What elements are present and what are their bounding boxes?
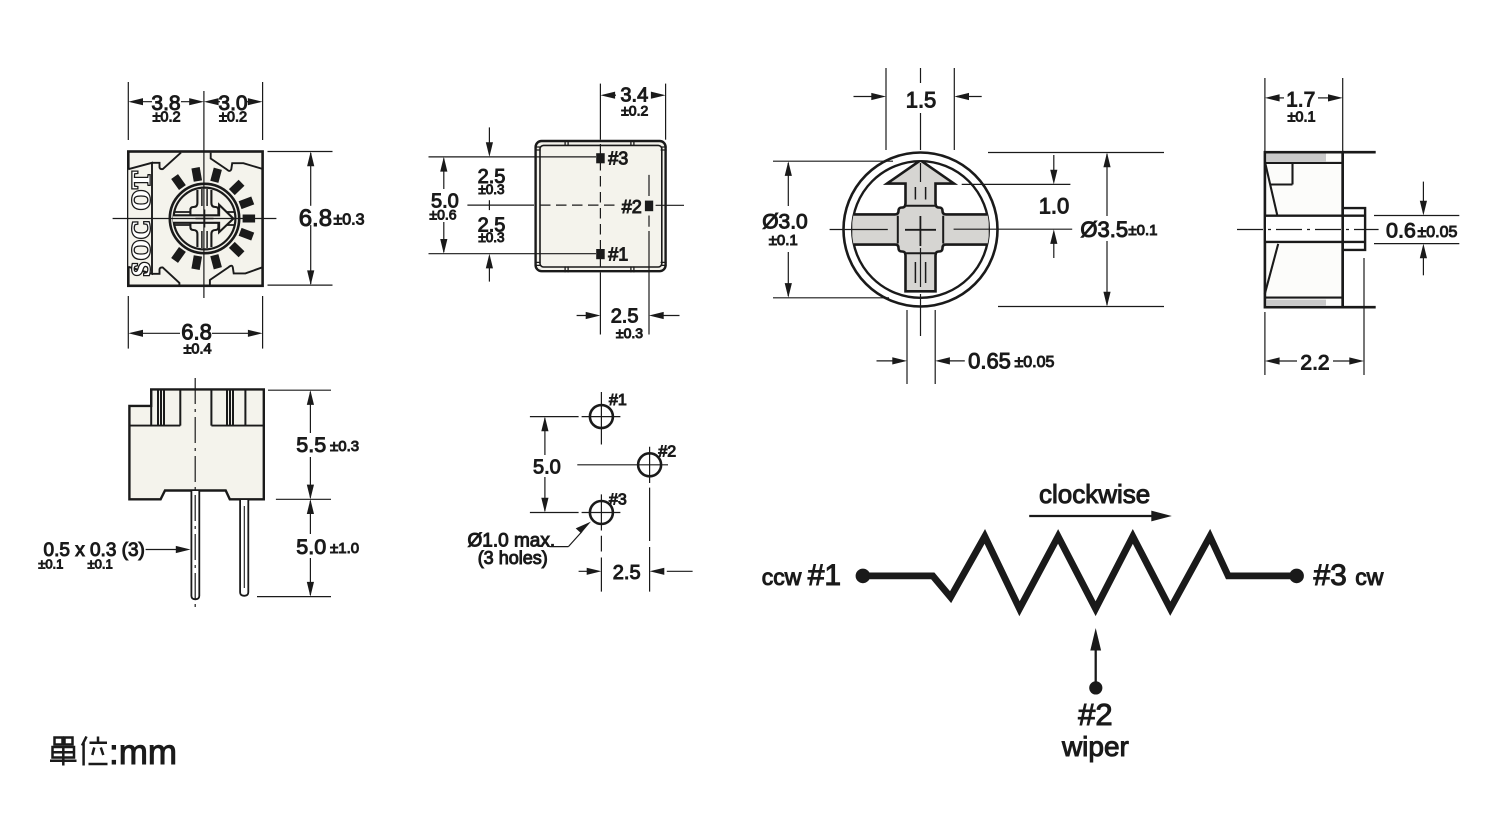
svg-text:0.65: 0.65 bbox=[968, 349, 1011, 374]
centerline vertical pins column bbox=[599, 84, 601, 335]
pin 3 pad bbox=[596, 153, 605, 163]
gray bearing strip top bbox=[1266, 154, 1326, 162]
dimension 0.6 +-0.05 bbox=[1374, 182, 1459, 276]
svg-text:5.0: 5.0 bbox=[533, 457, 561, 479]
clockwise arrow bbox=[1029, 511, 1172, 522]
svg-text:5.5: 5.5 bbox=[296, 433, 326, 457]
svg-text:ccw #1: ccw #1 bbox=[762, 559, 841, 592]
shaft band lines bbox=[1265, 216, 1365, 242]
svg-text:#3 cw: #3 cw bbox=[1314, 559, 1384, 592]
svg-text:wiper: wiper bbox=[1061, 731, 1129, 762]
svg-text:#3: #3 bbox=[608, 149, 628, 169]
dimension 1.0 bbox=[954, 155, 1073, 258]
hole column lines bbox=[601, 488, 649, 592]
svg-text:#2: #2 bbox=[622, 197, 642, 217]
svg-text:±0.1: ±0.1 bbox=[38, 557, 63, 572]
svg-text:±0.05: ±0.05 bbox=[1015, 354, 1055, 371]
svg-text:5.0: 5.0 bbox=[296, 535, 326, 559]
fin verticals bbox=[151, 389, 245, 425]
TOCOS panel bbox=[128, 163, 152, 274]
svg-text:2.5: 2.5 bbox=[613, 562, 641, 584]
leg 2 bbox=[240, 500, 248, 596]
extension line pin3 level bbox=[429, 156, 597, 158]
leg 1 bbox=[191, 491, 199, 599]
dimension 6.8 +-0.3 right bbox=[268, 152, 333, 286]
svg-text:±0.2: ±0.2 bbox=[621, 103, 648, 119]
TOCOS letter O1 bbox=[132, 191, 149, 209]
slot notch top-left bbox=[1265, 163, 1342, 298]
centerline horizontal view1 bbox=[113, 218, 277, 220]
dimension 2.5 upper +-0.3 bbox=[486, 127, 493, 156]
dimension dia 3.0 +-0.1 bbox=[773, 161, 893, 298]
extension line pin1 level bbox=[429, 253, 597, 255]
svg-text:±0.2: ±0.2 bbox=[152, 110, 180, 126]
svg-text:±0.1: ±0.1 bbox=[1128, 222, 1157, 239]
rotor inner circle view3 bbox=[852, 161, 989, 298]
body right edge view4 bbox=[1341, 152, 1344, 307]
svg-text:±0.1: ±0.1 bbox=[1287, 110, 1315, 126]
svg-text:(3 holes): (3 holes) bbox=[478, 548, 548, 568]
recess shoulder lines bbox=[898, 206, 943, 253]
svg-text:#3: #3 bbox=[609, 491, 627, 508]
phillips recess cross bbox=[851, 160, 990, 291]
terminal 1 node bbox=[856, 569, 871, 584]
pin 1 pad bbox=[596, 249, 605, 259]
centerline view5 bbox=[194, 378, 196, 609]
dimension 0.65 +-0.05 bbox=[877, 310, 965, 384]
rotor outer circle view3 bbox=[844, 153, 998, 307]
svg-text::mm: :mm bbox=[109, 733, 177, 772]
shaft bore white bbox=[1266, 217, 1364, 241]
hole 3 bbox=[582, 494, 621, 530]
svg-text:2.2: 2.2 bbox=[1300, 352, 1329, 375]
dimension 5.0 holes bbox=[530, 417, 579, 513]
svg-text:±0.05: ±0.05 bbox=[1418, 224, 1458, 241]
leader arrow to hole3 bbox=[549, 522, 591, 547]
rotor phillips cross bbox=[190, 190, 218, 247]
body outline view1 bbox=[128, 152, 262, 286]
slot wall diagonal top bbox=[1265, 163, 1277, 215]
rotor slot double lines bbox=[202, 189, 207, 248]
pin2 crosshair vertical bbox=[648, 175, 650, 227]
body view5 bbox=[129, 389, 263, 499]
terminal 3 node bbox=[1289, 569, 1304, 584]
TOCOS letter C bbox=[132, 222, 149, 238]
dimension 5.5 +-0.3 bbox=[268, 390, 331, 499]
dimension 3.0 +-0.2 bbox=[204, 98, 263, 105]
centerline horizontal view3 bbox=[830, 229, 888, 231]
svg-text:#1: #1 bbox=[609, 392, 627, 409]
centerline vertical view1 bbox=[203, 91, 205, 298]
leg2 inner line bbox=[243, 506, 245, 588]
dimension 3.4 +-0.2 bbox=[600, 84, 665, 140]
svg-text:±0.3: ±0.3 bbox=[478, 230, 504, 245]
svg-text:Ø3.5: Ø3.5 bbox=[1080, 217, 1128, 242]
svg-text:#2: #2 bbox=[658, 443, 676, 460]
dimension 2.5 bottom bbox=[577, 231, 680, 335]
hanzi unit dan bbox=[50, 738, 77, 766]
svg-text:clockwise: clockwise bbox=[1039, 479, 1150, 509]
svg-text:±0.6: ±0.6 bbox=[429, 207, 456, 223]
svg-text:Ø3.0: Ø3.0 bbox=[762, 211, 808, 234]
dimension 2.5 lower +-0.3 bbox=[486, 254, 493, 282]
fin strip bottom line bbox=[129, 425, 263, 427]
rotor horizontal bar edges bbox=[175, 212, 235, 225]
bottom recess contour view1 bbox=[152, 266, 262, 286]
rotor cw arrow bbox=[173, 205, 233, 233]
dimension 1.7 +-0.1 bbox=[1265, 78, 1343, 156]
wiper arrow bbox=[1090, 628, 1101, 685]
rotor body view4 bbox=[1265, 152, 1343, 307]
svg-text:±1.0: ±1.0 bbox=[330, 540, 359, 557]
rotor center cross bbox=[196, 210, 214, 228]
svg-text:±0.3: ±0.3 bbox=[330, 438, 359, 455]
svg-text:#1: #1 bbox=[608, 244, 628, 264]
mold tabs view2 bbox=[535, 140, 667, 272]
package inner outline view2 bbox=[540, 145, 662, 267]
package outline view2 bbox=[536, 141, 666, 271]
hole 1 bbox=[582, 392, 621, 445]
center cross view3 bbox=[905, 216, 936, 246]
svg-text:6.8: 6.8 bbox=[299, 205, 332, 232]
svg-text:#2: #2 bbox=[1078, 697, 1112, 732]
wiper node bbox=[1089, 681, 1102, 694]
rotor dial marks bbox=[171, 167, 255, 270]
TOCOS letter T bbox=[132, 172, 149, 189]
resistor element R zigzag bbox=[863, 536, 1297, 608]
TOCOS letter S bbox=[132, 263, 149, 275]
dimension 6.8 +-0.4 bottom bbox=[128, 296, 262, 349]
svg-text:1.0: 1.0 bbox=[1039, 193, 1070, 218]
svg-text:±0.1: ±0.1 bbox=[88, 557, 113, 572]
centerline view4 bbox=[1237, 229, 1379, 231]
dimension 1.5 bbox=[854, 68, 982, 150]
centerline vertical view3 bbox=[920, 68, 922, 336]
dimension 2.5 holes bbox=[579, 568, 693, 575]
gray bearing strip bottom bbox=[1266, 300, 1326, 306]
dimension 5.0 +-1.0 bbox=[257, 499, 331, 596]
svg-text:±0.1: ±0.1 bbox=[769, 232, 798, 249]
dimension 2.2 bbox=[1265, 258, 1364, 375]
svg-text:±0.3: ±0.3 bbox=[478, 182, 504, 197]
svg-text:±0.4: ±0.4 bbox=[183, 342, 211, 358]
svg-text:±0.3: ±0.3 bbox=[616, 325, 643, 341]
svg-text:±0.3: ±0.3 bbox=[334, 212, 365, 229]
shaft boss view4 bbox=[1343, 208, 1365, 250]
svg-text:0.6: 0.6 bbox=[1386, 218, 1416, 242]
rotor inner circle bbox=[174, 188, 236, 250]
svg-text:±0.2: ±0.2 bbox=[219, 110, 247, 126]
rotor outer circle bbox=[170, 184, 239, 253]
dimension 3.8 +-0.2 bbox=[128, 82, 262, 140]
recess slot lines bbox=[915, 187, 925, 283]
top recess contour view1 bbox=[152, 153, 262, 171]
slot wall diagonal bottom bbox=[1265, 244, 1279, 295]
pin 2 pad bbox=[645, 201, 653, 212]
TOCOS letter O2 bbox=[132, 241, 149, 259]
leader arrow to leg1 bbox=[146, 546, 191, 553]
dimension 5.0 +-0.6 bbox=[440, 157, 447, 254]
dimension dia 3.5 +-0.1 bbox=[988, 153, 1164, 307]
svg-text:1.5: 1.5 bbox=[906, 88, 937, 113]
hole 2 bbox=[577, 447, 668, 483]
hanzi unit wei bbox=[82, 737, 108, 766]
centerline horizontal view2 bbox=[467, 200, 684, 210]
svg-text:1.7: 1.7 bbox=[1286, 89, 1315, 112]
